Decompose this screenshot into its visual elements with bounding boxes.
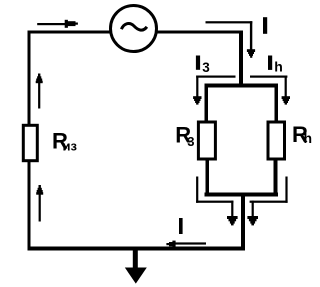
sine symbol bbox=[121, 23, 146, 30]
arrow current Ih elbow bbox=[250, 76, 287, 78]
wire right vertical bbox=[239, 31, 243, 88]
wire stub below R3 bbox=[206, 160, 210, 193]
wire center vertical below parallel bbox=[241, 197, 245, 251]
arrow return right bracket bbox=[285, 177, 287, 203]
svg-text:из: из bbox=[63, 139, 78, 154]
wire stub above R3 bbox=[205, 88, 209, 123]
svg-text:3: 3 bbox=[187, 134, 194, 149]
arrow current I elbow top-right bbox=[206, 21, 253, 23]
arrow up above Rиз bbox=[38, 81, 40, 109]
wire parallel top bar bbox=[205, 84, 279, 88]
ground bbox=[133, 251, 138, 269]
wire top horizontal bbox=[28, 31, 244, 34]
arrow current bottom I (leftward) bbox=[175, 242, 207, 244]
svg-text:h: h bbox=[274, 59, 283, 75]
arrow current I3 elbow bbox=[196, 76, 235, 78]
arrow current top-left (rightward) bbox=[37, 23, 65, 25]
svg-text:h: h bbox=[304, 130, 313, 146]
arrow up below Rиз bbox=[39, 192, 41, 222]
ac source U1 bbox=[111, 6, 157, 52]
label I3 bbox=[196, 56, 200, 70]
label Ih bbox=[268, 56, 272, 70]
label I top bbox=[263, 17, 267, 34]
wire bottom horizontal bbox=[28, 247, 246, 251]
resistor Rh bbox=[268, 122, 285, 159]
wire stub below Rh bbox=[274, 160, 278, 193]
wire left vertical bbox=[28, 31, 31, 251]
wire parallel bottom bar bbox=[205, 193, 279, 197]
label I bottom bbox=[179, 218, 183, 234]
svg-text:3: 3 bbox=[202, 60, 210, 75]
resistor Rиз bbox=[23, 125, 37, 160]
wire stub above Rh bbox=[275, 88, 279, 123]
arrow return left bracket bbox=[196, 177, 198, 203]
resistor R3 bbox=[198, 122, 215, 159]
